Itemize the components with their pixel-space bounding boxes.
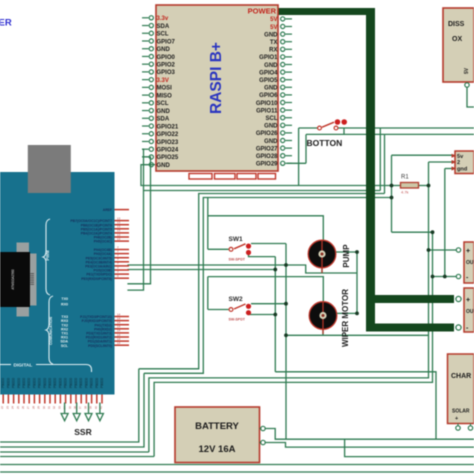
svg-text:PB0D0: PB0D0 <box>100 378 104 388</box>
svg-text:GND: GND <box>264 139 278 145</box>
svg-text:GPIO25: GPIO25 <box>157 155 179 161</box>
svg-text:PB0D0: PB0D0 <box>6 378 10 388</box>
svg-text:SOLAR: SOLAR <box>452 409 470 415</box>
svg-text:22: 22 <box>0 406 4 409</box>
svg-text:MOSI: MOSI <box>157 86 173 92</box>
svg-text:GPIO24: GPIO24 <box>157 148 179 154</box>
svg-text:PB0D0: PB0D0 <box>12 378 16 388</box>
svg-text:GPIO29: GPIO29 <box>256 162 278 168</box>
svg-text:GPIO4: GPIO4 <box>259 70 278 76</box>
svg-text:PB0D0: PB0D0 <box>79 378 83 388</box>
svg-text:RX: RX <box>269 48 277 54</box>
svg-text:COMUNICATION: COMUNICATION <box>49 317 53 345</box>
svg-text:SCL: SCL <box>266 116 278 122</box>
svg-text:SDA: SDA <box>157 117 170 123</box>
svg-text:GPIO10: GPIO10 <box>256 101 278 107</box>
svg-text:GPIO11: GPIO11 <box>256 108 278 114</box>
svg-text:PB0D0: PB0D0 <box>58 378 62 388</box>
svg-text:PD0(SCL/INT0): PD0(SCL/INT0) <box>88 344 112 348</box>
svg-text:PB0D0: PB0D0 <box>43 378 47 388</box>
svg-text:GND: GND <box>264 63 278 69</box>
svg-text:SDA: SDA <box>157 24 170 30</box>
svg-text:RASPI B+: RASPI B+ <box>208 42 225 114</box>
svg-text:5v: 5v <box>457 154 464 160</box>
svg-text:PB0D0: PB0D0 <box>53 378 57 388</box>
svg-text:PB0D0: PB0D0 <box>17 378 21 388</box>
svg-text:GPIO22: GPIO22 <box>157 132 179 138</box>
svg-text:12V 16A: 12V 16A <box>199 444 236 455</box>
svg-text:GPIO26: GPIO26 <box>256 131 278 137</box>
svg-text:SW2: SW2 <box>229 296 243 303</box>
svg-text:SCL: SCL <box>61 344 69 348</box>
svg-text:WIPER MOTOR: WIPER MOTOR <box>341 289 350 347</box>
svg-text:GND: GND <box>264 124 278 130</box>
svg-text:BOTTON: BOTTON <box>307 138 343 148</box>
svg-text:PB0D0: PB0D0 <box>84 378 88 388</box>
svg-text:GPIO23: GPIO23 <box>157 140 179 146</box>
svg-text:DISS: DISS <box>448 21 465 28</box>
svg-text:GPIO27: GPIO27 <box>256 146 278 152</box>
svg-text:14: 14 <box>117 341 121 345</box>
svg-text:GPIO1: GPIO1 <box>259 55 278 61</box>
svg-text:GPIO0: GPIO0 <box>157 55 176 61</box>
svg-text:GND: GND <box>264 86 278 92</box>
svg-text:PE0(RXD0/PCINT8): PE0(RXD0/PCINT8) <box>81 277 112 281</box>
svg-text:R1: R1 <box>401 175 409 181</box>
svg-text:OU: OU <box>466 309 474 315</box>
svg-text:BATTERY: BATTERY <box>195 421 239 432</box>
svg-text:SCL: SCL <box>157 32 169 38</box>
svg-text:PB0D0: PB0D0 <box>48 378 52 388</box>
svg-text:MISO: MISO <box>157 93 173 99</box>
svg-text:gnd: gnd <box>457 167 468 173</box>
svg-text:TX0: TX0 <box>61 297 68 301</box>
svg-text:PB0D0: PB0D0 <box>22 378 26 388</box>
svg-text:POWER: POWER <box>248 7 277 16</box>
svg-text:OX: OX <box>452 36 462 43</box>
svg-text:CHAR: CHAR <box>451 373 471 380</box>
svg-text:PB0D0: PB0D0 <box>38 378 42 388</box>
svg-text:PB0D0: PB0D0 <box>32 378 36 388</box>
svg-text:GND: GND <box>157 109 171 115</box>
svg-text:PH5(OC4C): PH5(OC4C) <box>94 240 112 244</box>
svg-text:+: + <box>466 297 470 304</box>
svg-text:GPIO7: GPIO7 <box>157 39 176 45</box>
svg-text:5V: 5V <box>464 67 470 74</box>
svg-text:+: + <box>455 416 458 422</box>
svg-text:GPIO21: GPIO21 <box>157 124 179 130</box>
svg-text:GPIO5: GPIO5 <box>259 78 278 84</box>
svg-text:OU: OU <box>466 260 474 266</box>
svg-text:ATMEGA2560: ATMEGA2560 <box>11 269 15 290</box>
svg-text:PWM: PWM <box>45 250 50 261</box>
svg-text:GND: GND <box>157 47 171 53</box>
svg-text:GND: GND <box>264 32 278 38</box>
svg-text:SW1: SW1 <box>229 236 243 243</box>
svg-text:4.7k: 4.7k <box>401 190 409 195</box>
svg-text:GPIO28: GPIO28 <box>256 154 278 160</box>
svg-text:DIGITAL: DIGITAL <box>14 363 33 369</box>
svg-text:SW-SPDT: SW-SPDT <box>229 318 246 322</box>
svg-text:PB0D0: PB0D0 <box>95 378 99 388</box>
svg-text:3.3v: 3.3v <box>157 16 169 22</box>
svg-text:SCL: SCL <box>157 101 169 107</box>
svg-text:PB0D0: PB0D0 <box>69 378 73 388</box>
svg-text:SSR: SSR <box>74 427 91 437</box>
svg-text:▐▐▐▐▐▐: ▐▐▐▐▐▐ <box>30 272 34 286</box>
svg-text:PB0D0: PB0D0 <box>1 378 5 388</box>
svg-text:RX0: RX0 <box>61 302 68 306</box>
svg-text:5V: 5V <box>270 17 277 23</box>
svg-text:2: 2 <box>457 160 460 166</box>
svg-text:PB0D0: PB0D0 <box>74 378 78 388</box>
svg-text:PB0D0: PB0D0 <box>90 378 94 388</box>
svg-text:GPIO3: GPIO3 <box>157 70 176 76</box>
svg-text:PUMP: PUMP <box>342 244 351 268</box>
svg-text:+: + <box>466 248 470 255</box>
svg-text:PB0D0: PB0D0 <box>64 378 68 388</box>
svg-text:5V: 5V <box>270 25 277 31</box>
svg-text:AREF: AREF <box>103 208 112 212</box>
svg-text:SW-SPDT: SW-SPDT <box>229 257 246 261</box>
svg-text:3.3V: 3.3V <box>157 78 169 84</box>
svg-text:ER: ER <box>0 18 12 29</box>
svg-text:GPIO6: GPIO6 <box>259 93 278 99</box>
svg-text:TX: TX <box>270 40 278 46</box>
svg-text:PB0D0: PB0D0 <box>27 378 31 388</box>
svg-text:13: 13 <box>117 237 121 241</box>
svg-text:GPIO2: GPIO2 <box>157 62 176 68</box>
svg-text:GND: GND <box>157 163 171 169</box>
